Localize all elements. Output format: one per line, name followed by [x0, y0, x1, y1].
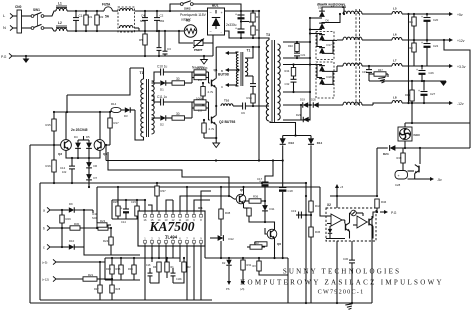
wire L3 to bridge ~ top: [135, 10, 208, 12]
wire pin to Q5 area: [180, 196, 230, 211]
wire Q1 emitter to Q2 collector: [215, 87, 217, 115]
svg-text:C14: C14: [121, 220, 126, 224]
wire D13 down: [282, 145, 284, 160]
svg-text:C28: C28: [395, 183, 401, 187]
wire: [261, 202, 263, 204]
wire IC pin down: [144, 246, 146, 300]
resistor R43 -12 bleeder: [411, 81, 413, 90]
wire: [233, 105, 243, 107]
fan FAN1: [398, 127, 412, 141]
svg-text:-5v: -5v: [437, 178, 442, 182]
svg-text:C11 1u: C11 1u: [157, 95, 167, 99]
wire T2 top tap: [236, 52, 239, 53]
svg-text:C19: C19: [291, 209, 297, 213]
svg-text:R32: R32: [254, 241, 259, 245]
wire fan rail right vertical: [469, 123, 471, 148]
wires D6 D7: [88, 158, 90, 163]
resistor R31: [242, 258, 244, 260]
transistor Q7: [418, 166, 420, 173]
svg-text:C17: C17: [257, 177, 263, 181]
transformer T1 left winding: [141, 79, 144, 137]
resistor R44 snubber: [293, 65, 295, 68]
node -12V output: [447, 102, 450, 104]
wire: [110, 109, 112, 111]
svg-text:682: 682: [160, 19, 165, 23]
wire c row to IC: [84, 247, 140, 255]
op-amp X2a: [331, 214, 342, 226]
wire: [402, 39, 447, 41]
svg-text:+: +: [235, 13, 237, 17]
wire R16 down to box: [53, 172, 55, 183]
capacitor C26: [421, 66, 423, 70]
wire CN0 to SW1 top: [22, 15, 32, 17]
transistor Q4 2SC945: [94, 140, 105, 151]
wire IC pin down: [193, 246, 195, 300]
svg-text:D3: D3: [124, 114, 128, 118]
wire C13 to T2: [252, 76, 254, 84]
wire: [97, 278, 112, 280]
wire sec tap5: [283, 104, 302, 106]
wire Q7 emitter: [408, 173, 415, 179]
wire to varistor: [179, 31, 193, 43]
wire sec tap4: [283, 91, 310, 93]
resistor R27: [99, 262, 101, 285]
wire T3 primary bottom to clamp: [270, 121, 296, 136]
svg-text:SW2: SW2: [184, 6, 191, 10]
svg-text:D2: D2: [222, 261, 226, 265]
wires D4 D5: [77, 140, 79, 143]
wire +5 to R39: [330, 195, 377, 197]
resistor R13 2.7k: [203, 120, 205, 123]
svg-text:Q4: Q4: [103, 152, 107, 156]
resistor R8 2.7k: [202, 83, 204, 87]
svg-text:+: +: [121, 207, 123, 211]
svg-text:a: a: [43, 209, 45, 213]
wire D17b cathode join: [322, 40, 333, 53]
svg-text:R30: R30: [74, 222, 80, 226]
svg-text:682: 682: [140, 19, 145, 23]
wire: [377, 147, 388, 149]
wire Q2 emitter down: [215, 124, 217, 143]
bridge rectifier BD1: [208, 8, 225, 35]
inductor L1: [56, 8, 67, 11]
wire to SW2: [170, 4, 181, 11]
varistor PMRT: [194, 41, 203, 46]
svg-text:C26: C26: [429, 71, 435, 75]
svg-text:2.2: 2.2: [198, 78, 202, 82]
wire -12 rail a: [362, 104, 373, 106]
svg-text:D19: D19: [300, 98, 305, 102]
svg-text:C27: C27: [430, 92, 436, 96]
wire: [259, 271, 288, 275]
wire T1 to C10: [152, 72, 161, 81]
wire: [107, 224, 111, 226]
svg-text:C33: C33: [362, 70, 367, 74]
svg-text:D12: D12: [229, 237, 235, 241]
resistor R6 100K: [194, 70, 206, 74]
diode D6 series: [86, 162, 92, 168]
wire T10 to T3: [267, 105, 269, 107]
resistor R34: [157, 262, 161, 272]
wire sense vertical: [408, 14, 410, 103]
wire to D21: [300, 105, 302, 120]
resistor R30: [70, 226, 80, 230]
svg-text:(+12): (+12): [42, 278, 49, 282]
svg-text:2x 2SC945: 2x 2SC945: [71, 128, 88, 132]
wire down to R23: [96, 187, 98, 223]
wire: [54, 246, 69, 248]
node +5 arrow: [336, 187, 338, 196]
wire: [351, 263, 353, 303]
svg-text:Q6: Q6: [277, 242, 281, 246]
svg-text:L4: L4: [342, 5, 346, 9]
svg-text:FU5A: FU5A: [102, 3, 111, 7]
capacitor C18 new: [282, 161, 284, 188]
wire: [204, 246, 206, 258]
wire T2 sec bottom: [245, 75, 253, 77]
capacitor C1: [75, 11, 77, 18]
wire T1 to C11: [152, 96, 158, 102]
wire IC pin down: [158, 246, 160, 258]
resistor R33: [110, 265, 114, 274]
pin top 14: [158, 211, 160, 215]
wire to Q1 base: [209, 82, 210, 84]
wire +5 RC return: [413, 26, 415, 40]
wire IC pin down: [165, 246, 167, 262]
resistor R15: [53, 112, 55, 119]
wire pin to rail2: [186, 187, 188, 211]
svg-text:D4: D4: [74, 135, 78, 139]
svg-text:R44: R44: [285, 69, 290, 73]
resistor R42 +12 bleeder: [413, 40, 415, 43]
wire +12 RC return: [413, 52, 415, 66]
wire D14 down to R44: [310, 145, 312, 201]
svg-text:L7: L7: [393, 59, 397, 63]
svg-text:R37: R37: [161, 189, 167, 193]
svg-text:+12v: +12v: [457, 39, 465, 43]
wire D17 anodes: [317, 34, 322, 47]
svg-text:D13: D13: [289, 141, 295, 145]
wire GND rail: [369, 80, 446, 82]
wire fan stem: [404, 123, 406, 127]
wire Q6 emitter: [274, 238, 276, 258]
pin bottom 9: [200, 243, 202, 246]
wire D1 to R7: [166, 82, 172, 84]
wire -12 to fan rail: [411, 103, 413, 123]
resistor R21: [83, 277, 97, 281]
wire L2 to thermistor: [67, 30, 185, 32]
wire T1 to 2SC945 collector rail: [67, 68, 130, 95]
svg-text:C1: C1: [79, 14, 83, 18]
wire: [131, 109, 135, 111]
diode D18a: [319, 66, 325, 72]
diode D9: [69, 207, 74, 212]
current source X2: [351, 210, 357, 216]
svg-text:R16: R16: [46, 164, 52, 168]
svg-text:R27: R27: [94, 288, 99, 291]
transformer T1 right winding: [152, 81, 155, 134]
wire to D6 anode: [310, 29, 322, 31]
wire: [210, 237, 218, 239]
wire bridge + rail: [225, 10, 260, 12]
resistor R2: [96, 11, 98, 15]
resistor R24: [110, 228, 112, 237]
resistor R40 snubber: [296, 42, 298, 44]
wire D18 out +3.3 rail: [322, 66, 337, 71]
wire: [249, 216, 265, 222]
wire: [402, 102, 447, 104]
wire Q4 base: [105, 144, 110, 146]
inductor T10: [221, 104, 233, 106]
svg-text:C30: C30: [343, 257, 349, 261]
pin top 12: [172, 211, 174, 215]
wire D24 to PG node: [376, 148, 378, 196]
thermistor NTC R2: [184, 25, 196, 37]
wire R45 down: [310, 237, 312, 303]
inductor L6: [392, 37, 402, 40]
wire T3 primary top to +rail: [259, 38, 269, 40]
pin top 15: [151, 211, 153, 215]
capacitor C32 snubber: [293, 76, 295, 79]
zener D14: [308, 138, 314, 144]
resistor R4 bleeder: [252, 22, 254, 26]
svg-text:+: +: [421, 15, 423, 19]
svg-text:SW1: SW1: [33, 8, 40, 12]
wire X2 to PG node: [373, 212, 377, 218]
wire Q6 base: [265, 228, 267, 234]
wire Q7 collector: [419, 148, 421, 164]
wire prot row: [205, 257, 288, 259]
svg-text:5A: 5A: [105, 15, 110, 19]
diode D17b: [319, 48, 325, 54]
pin top 11: [179, 211, 181, 215]
svg-text:PMRT: PMRT: [194, 48, 203, 52]
wire D18 anodes: [317, 65, 322, 78]
inductor L4 core: [355, 9, 357, 107]
wire row bottom: [105, 279, 140, 281]
node B arrow: [228, 52, 236, 54]
node C arrow: [228, 69, 236, 71]
svg-text:30: 30: [176, 77, 180, 81]
pin top 9: [193, 211, 195, 215]
svg-text:R24: R24: [103, 239, 109, 243]
diode D10: [69, 244, 74, 249]
inductor L4 winding4: [343, 102, 362, 105]
wire pin link: [166, 200, 173, 211]
transistor X2 out: [368, 219, 370, 226]
resistor R9 2.2: [194, 75, 206, 79]
bridge diode symbol: [212, 18, 221, 27]
wire Q4 emitter: [89, 150, 100, 158]
wire: [121, 109, 125, 111]
resistor R22: [98, 226, 108, 230]
resistor R38: [220, 187, 222, 209]
resistor R5 to ground: [144, 31, 146, 34]
svg-text:R6 100K: R6 100K: [196, 66, 208, 70]
wire SW1 to L1: [44, 11, 56, 16]
svg-text:R5: R5: [139, 38, 143, 42]
ground earth main: [345, 304, 352, 305]
transformer T3 primary winding: [266, 40, 269, 121]
wire Q5 emitter: [243, 203, 245, 208]
svg-text:L1: L1: [58, 2, 62, 6]
svg-text:D21: D21: [296, 113, 301, 117]
wire + rail continues down: [258, 38, 260, 161]
resistor R23: [97, 223, 107, 227]
wire: [74, 246, 84, 248]
wire T1 top left: [130, 68, 144, 79]
svg-text:C10 1u: C10 1u: [157, 65, 168, 69]
wire: [110, 109, 112, 111]
wire aux top rail: [53, 111, 111, 113]
capacitor C3 Y-cap: [164, 31, 166, 51]
wire sec tap2: [283, 57, 310, 59]
wire D5 cathode to +5 rail: [322, 7, 344, 14]
wire L1 to fuse: [67, 10, 101, 12]
svg-text:C20: C20: [433, 18, 439, 22]
svg-text:L6: L6: [393, 33, 397, 37]
wire: [185, 82, 193, 84]
wire D2 to R11: [166, 117, 172, 119]
svg-text:L5: L5: [393, 7, 397, 11]
wire: [104, 258, 106, 280]
wire fan bottom: [404, 141, 406, 148]
transformer T1 core: [146, 79, 148, 137]
diode D20: [313, 102, 318, 107]
wire: [261, 200, 265, 202]
wire cap midpoint to R midpoint: [249, 21, 253, 23]
inductor L8: [392, 100, 402, 103]
wire IC pin down: [172, 246, 174, 258]
svg-text:D11: D11: [270, 207, 275, 211]
node +12V output: [447, 39, 450, 41]
wire par left 2: [191, 102, 193, 118]
svg-text:C19b: C19b: [176, 278, 182, 281]
capacitor C9 series: [242, 103, 244, 110]
svg-text:D7: D7: [94, 176, 98, 180]
svg-text:C2: C2: [160, 14, 164, 18]
choke L3 dashed box: [118, 7, 135, 32]
node +5V output: [447, 13, 450, 15]
wire: [140, 199, 145, 201]
wire CN0 to SW1 bottom: [22, 27, 32, 29]
svg-text:R15: R15: [46, 123, 52, 127]
svg-text:D5: D5: [86, 135, 90, 139]
resistor R20: [182, 262, 186, 272]
diode D1: [160, 80, 165, 85]
pin bottom 5: [172, 243, 174, 246]
resistor R32: [250, 245, 262, 249]
wire D14 top: [310, 136, 312, 139]
svg-text:C3: C3: [167, 47, 171, 51]
wire: [116, 10, 118, 12]
switch SW1: [31, 15, 34, 18]
svg-text:SUNNY TECHNOLOGIES: SUNNY TECHNOLOGIES: [283, 268, 401, 276]
resistor R7 30: [172, 81, 185, 85]
svg-text:R40: R40: [288, 44, 293, 48]
diode D17a: [319, 35, 325, 41]
transformer T2 right winding: [245, 58, 248, 76]
wire: [295, 214, 297, 216]
wire SW2 to cap midpoint: [193, 4, 241, 22]
svg-text:CN0: CN0: [15, 5, 22, 9]
svg-text:+: +: [421, 41, 423, 45]
wire: [110, 110, 112, 112]
svg-text:+: +: [416, 68, 418, 72]
wire pin to rail: [144, 200, 146, 211]
op-amp X2b: [357, 216, 367, 228]
svg-text:T1: T1: [247, 49, 251, 53]
pin bottom 3: [158, 243, 160, 246]
wire: [318, 104, 343, 106]
pin top 16: [144, 211, 146, 215]
ground earth R47: [378, 77, 385, 78]
wire second ctrl rail: [97, 186, 320, 188]
ground MOV note: [203, 56, 205, 60]
transistor Q1 BUT98: [211, 80, 213, 87]
resistor R36: [249, 199, 261, 203]
resistor R17: [109, 112, 111, 118]
wire D6 cathode join: [322, 14, 340, 23]
wire aux feedback B: [108, 152, 229, 196]
inductor L4 winding3: [343, 63, 362, 66]
wire Q1 collector rail: [216, 46, 259, 48]
wire L3 out bottom: [135, 27, 140, 29]
wire +12 rail: [362, 39, 392, 41]
diode D12: [218, 235, 224, 241]
wire right vert to bus: [287, 258, 289, 303]
pin top 10: [186, 211, 188, 215]
wire: [60, 261, 105, 263]
svg-text:102: 102: [62, 170, 67, 174]
zener D13: [280, 138, 286, 144]
junction C1: [75, 10, 77, 12]
svg-text:C9: C9: [241, 111, 245, 115]
svg-text:R1: R1: [89, 15, 93, 19]
wire D17 out +12 rail: [322, 39, 337, 41]
wire: [54, 209, 69, 211]
wire: [376, 208, 378, 212]
svg-text:B: B: [221, 69, 223, 73]
wire par left: [191, 72, 193, 83]
diode D19: [303, 102, 308, 107]
wire row top: [105, 257, 180, 259]
pin bottom 4: [165, 243, 167, 246]
transistor Q5: [236, 194, 246, 204]
wire D18b cathode join: [322, 71, 333, 84]
wire X2 gnd1: [336, 241, 338, 303]
transistor Q3 2SC945: [61, 140, 72, 151]
pin bottom 6: [179, 243, 181, 246]
wire: [245, 105, 267, 107]
wire pre-IC rail2: [112, 218, 140, 220]
node PS down: [228, 278, 230, 282]
wire C17 to D11: [264, 186, 266, 205]
wire sec vertical bus: [283, 18, 310, 120]
capacitor C2: [156, 11, 158, 18]
diode D3: [125, 107, 130, 112]
wire upper ctrl rail: [40, 182, 306, 184]
wire pin: [148, 205, 152, 211]
capacitor C7 330u: [240, 11, 242, 15]
capacitor C6 Y-cap: [158, 31, 160, 47]
resistor R16: [53, 145, 55, 160]
svg-text:R3: R3: [256, 15, 260, 19]
zener D11: [262, 205, 268, 211]
svg-text:R26: R26: [113, 200, 118, 204]
ground PE input: [25, 56, 27, 59]
wire Q1 collector up: [215, 47, 217, 79]
